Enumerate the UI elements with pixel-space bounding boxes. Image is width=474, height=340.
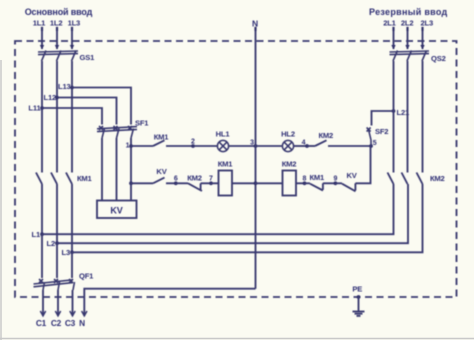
contact KV (NC, lower rung right) [342, 171, 358, 191]
breaker SF2 [367, 127, 389, 146]
node 4 [302, 139, 309, 148]
breaker QF1 [34, 272, 95, 291]
svg-text:QS2: QS2 [431, 54, 446, 63]
svg-text:4: 4 [302, 139, 306, 146]
svg-text:КМ1: КМ1 [310, 173, 326, 182]
wire to node 5 [328, 145, 371, 147]
lamp HL1 [216, 129, 231, 151]
node 1 [126, 143, 133, 150]
node L21 [392, 108, 410, 117]
node 8 [303, 175, 307, 185]
wire coil KM2 to node 8 [296, 182, 305, 184]
wire L12 to SF1 pole2 [57, 98, 117, 125]
node 9 [333, 175, 337, 185]
wire N vertical [255, 31, 257, 289]
wire to node 7 [201, 182, 211, 184]
wire L11 to SF1 pole1 [42, 108, 102, 125]
wire 1L3 down to GS1 [70, 31, 74, 50]
wire QS2 pole3 down [422, 61, 424, 173]
terminal 1L2 [50, 18, 63, 31]
svg-text:HL1: HL1 [216, 129, 231, 138]
arrow N output [82, 311, 87, 316]
node 5 [369, 140, 377, 148]
wire KM1 pole2 down [56, 184, 58, 243]
wire GS1 pole1 down [41, 61, 43, 173]
terminal 1L3 [68, 18, 81, 31]
terminal 2L3 [421, 18, 434, 31]
svg-text:1L3: 1L3 [68, 18, 81, 27]
wire to KV contact [131, 182, 153, 184]
node 7 [209, 175, 213, 185]
terminal 1L1 [33, 18, 46, 31]
svg-text:L3: L3 [62, 248, 70, 257]
wire QF1 pole3 [71, 252, 73, 278]
node 6 [174, 175, 178, 185]
wire KM1 pole1 down [41, 184, 43, 234]
bus L1 [42, 184, 394, 234]
svg-text:PE: PE [352, 285, 362, 294]
svg-text:3: 3 [250, 139, 254, 146]
svg-text:SF1: SF1 [135, 119, 149, 128]
wire QS2 pole2 down [407, 61, 409, 173]
contact KM2 (NC, lower rung) [187, 173, 202, 191]
svg-text:1L1: 1L1 [33, 18, 46, 27]
svg-text:N: N [79, 318, 85, 328]
svg-text:КМ2: КМ2 [430, 174, 445, 183]
wire N horizontal to output [84, 289, 255, 316]
node L12 [44, 93, 59, 102]
svg-text:2L3: 2L3 [421, 18, 434, 27]
junction lower rung start [129, 181, 133, 185]
switch GS1 [38, 51, 95, 63]
wire N to coil KM2 [256, 182, 283, 184]
contact KM2 (NO, top rung) [315, 131, 333, 146]
enclosure dashed border [15, 41, 457, 297]
svg-text:KV: KV [156, 167, 167, 176]
svg-text:2L2: 2L2 [401, 18, 414, 27]
contact KM1 (NO, top rung) [153, 133, 169, 147]
wire node4 to KM2 contact [307, 145, 315, 147]
svg-text:КМ1: КМ1 [77, 174, 93, 183]
node L3 [62, 248, 74, 257]
node L2 [47, 239, 59, 248]
svg-text:КМ2: КМ2 [319, 131, 334, 140]
terminal 2L2 [401, 18, 414, 31]
wire to node 9 [323, 182, 336, 184]
wire 1L2 down to GS1 [55, 31, 59, 50]
terminal 2L1 [383, 18, 396, 31]
wire node2 to HL1 [193, 145, 218, 147]
svg-text:KV: KV [110, 206, 122, 216]
wire QS2 pole1 down [393, 61, 395, 173]
wire output C1 [40, 290, 45, 316]
svg-text:L12: L12 [44, 93, 57, 102]
svg-text:6: 6 [174, 175, 178, 182]
svg-text:L1: L1 [32, 230, 41, 239]
wire GS1 pole2 down [56, 61, 58, 173]
node L11 [28, 104, 43, 113]
wire SF1 pole3 down [130, 138, 132, 201]
wire HL1 to node 3 [229, 145, 256, 147]
wire node1 to KM1 contact [131, 145, 153, 147]
node L13 [58, 82, 74, 91]
svg-text:Основной ввод: Основной ввод [25, 7, 93, 17]
junction N / lower rung [254, 181, 258, 185]
wire L21 to SF2 [372, 111, 394, 126]
svg-text:1: 1 [126, 143, 130, 150]
wire GS1 pole3 down [71, 61, 73, 173]
contactor KM1 [36, 173, 93, 185]
wire KM1 pole3 down [71, 184, 73, 252]
wire node3 to HL2 [256, 145, 283, 147]
svg-text:9: 9 [333, 175, 337, 182]
bus L3 [72, 184, 423, 252]
svg-text:Резервный ввод: Резервный ввод [369, 7, 448, 17]
svg-text:L11: L11 [28, 104, 41, 113]
svg-text:L2: L2 [47, 239, 55, 248]
wire node7 to coil KM1 [211, 182, 219, 184]
coil KM2 [282, 160, 297, 196]
wire to node 6 [166, 182, 176, 184]
svg-text:КМ1: КМ1 [154, 133, 170, 142]
svg-text:8: 8 [303, 175, 307, 182]
svg-text:5: 5 [373, 140, 377, 147]
wire QF1 pole2 [56, 243, 58, 278]
contactor KM2 [388, 173, 445, 185]
svg-text:КМ1: КМ1 [218, 160, 234, 169]
wire output C2 [55, 290, 60, 316]
switch QS2 [390, 51, 446, 64]
svg-text:КМ2: КМ2 [282, 160, 297, 169]
svg-text:L13: L13 [58, 82, 71, 91]
wire 1L1 down to GS1 [40, 31, 44, 50]
wire 2L3 down to QS2 [420, 31, 424, 50]
wire node8 to KM1 contact [305, 182, 311, 184]
bus L2 [57, 184, 408, 243]
svg-text:SF2: SF2 [375, 127, 388, 136]
breaker SF1 [97, 119, 149, 139]
wire output C3 [70, 290, 75, 316]
node L1 [32, 230, 44, 239]
node 3 [250, 139, 257, 148]
svg-text:KV: KV [347, 171, 358, 180]
node 2 [191, 138, 195, 148]
wire 2L1 down to QS2 [391, 31, 395, 50]
wire node6 to KM2 contact [176, 182, 188, 184]
lamp HL2 [281, 129, 295, 151]
wire SF1 pole2 to KV [116, 138, 118, 201]
wire coil KM1 to N [232, 182, 256, 184]
wire SF1 pole1 to KV [101, 138, 103, 201]
wire 2L2 down to QS2 [405, 31, 409, 50]
svg-text:HL2: HL2 [281, 129, 295, 138]
svg-text:C1: C1 [36, 318, 47, 328]
wire HL2 to node 4 [294, 145, 307, 147]
wire to node 2 [166, 145, 193, 147]
svg-text:7: 7 [209, 175, 213, 182]
svg-text:QF1: QF1 [79, 272, 94, 281]
svg-text:КМ2: КМ2 [187, 173, 202, 182]
contact KM1 (NC, lower rung) [310, 173, 326, 191]
svg-text:2L1: 2L1 [383, 18, 396, 27]
contact KV (NO, lower rung) [153, 167, 168, 183]
svg-text:C3: C3 [65, 318, 76, 328]
svg-text:GS1: GS1 [80, 53, 96, 62]
ground PE [352, 285, 364, 316]
svg-text:1L2: 1L2 [50, 18, 63, 27]
relay KV box [97, 201, 137, 219]
coil KM1 [218, 160, 234, 196]
terminal N (top) [252, 18, 258, 31]
wire node9 to KV contact [335, 182, 342, 184]
wire QF1 pole1 [41, 234, 43, 278]
wire KV contact up to node 5 [355, 146, 370, 183]
svg-text:C2: C2 [51, 318, 62, 328]
wire L13 to SF1 pole3 [72, 88, 131, 125]
